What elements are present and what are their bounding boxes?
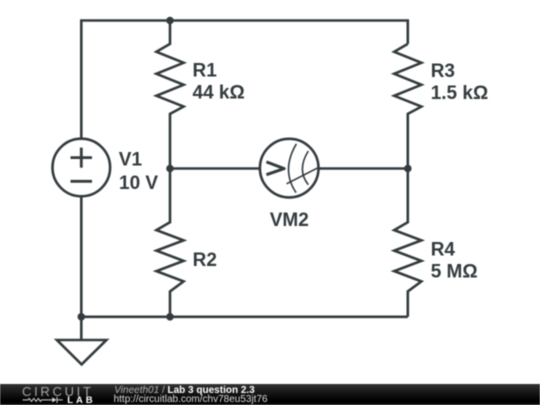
svg-text:R3: R3	[431, 61, 455, 82]
svg-text:V1: V1	[119, 149, 143, 170]
svg-text:10 V: 10 V	[119, 173, 158, 194]
svg-text:5 MΩ: 5 MΩ	[431, 261, 478, 282]
svg-text:1.5 kΩ: 1.5 kΩ	[431, 83, 489, 104]
svg-text:http://circuitlab.com/chv78eu5: http://circuitlab.com/chv78eu53jt76	[114, 394, 268, 405]
svg-text:44 kΩ: 44 kΩ	[193, 83, 245, 104]
svg-text:R1: R1	[193, 60, 218, 81]
svg-text:R4: R4	[431, 239, 456, 260]
svg-text:LAB: LAB	[67, 395, 95, 405]
svg-text:R2: R2	[193, 250, 217, 271]
svg-text:VM2: VM2	[270, 210, 309, 231]
